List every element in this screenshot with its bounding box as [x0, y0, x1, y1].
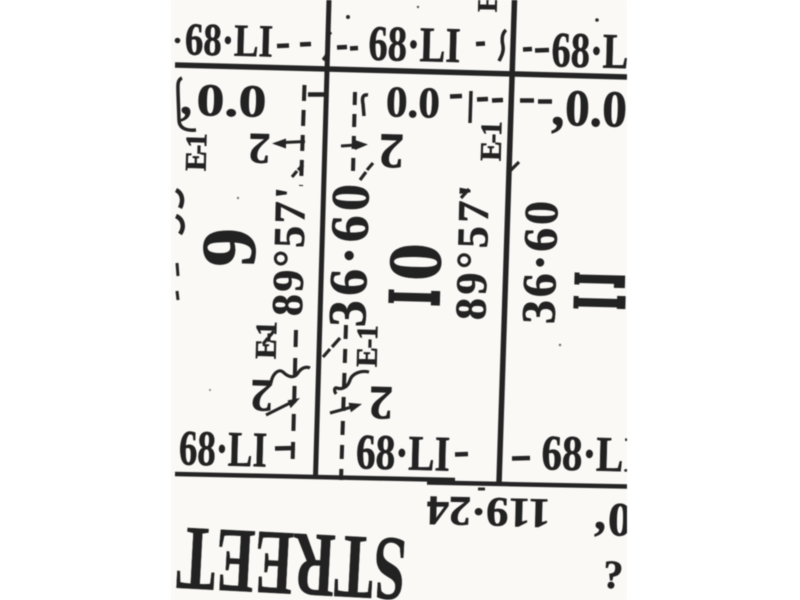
svg-text:0.0: 0.0 [564, 80, 627, 139]
easement dashed line right of lot line 9/10, top segment [353, 92, 355, 172]
svg-text:89°57': 89°57' [446, 184, 499, 320]
svg-text:0: 0 [373, 242, 458, 282]
squiggle leader lot 9 bottom [271, 367, 310, 383]
cut glyph fragment arcs at left scan edge [176, 190, 182, 208]
easement tick left of lot line 10/11 [470, 91, 471, 123]
arrow toward 2 label lot 9 top [284, 142, 305, 143]
svg-text:36·60: 36·60 [317, 183, 381, 328]
leader dash at lot line 10/11 near 36.60 column top [510, 162, 519, 171]
easement dashed line left of lot line 9/10, bottom segment [293, 330, 297, 466]
diagonal leader dashes below 36.60 column 9/10 [323, 349, 330, 357]
diagonal leader dashes above bearing column 9/10 [292, 171, 297, 177]
street boundary line (bottom horizontal, segment B) [427, 483, 627, 487]
lot line between 10 and 11 (vertical, tilted) [499, 0, 515, 483]
svg-text:119·24: 119·24 [426, 486, 551, 535]
easement dashed line left of lot line 9/10, top segment [301, 85, 305, 186]
dimension tick crossing lot line 10/11 at top [499, 30, 506, 61]
diagonal leader dashes above 36.60 column 9/10 [360, 172, 366, 180]
diagonal leader dashes below bearing column 9/10 [263, 338, 268, 344]
svg-text:0.0: 0.0 [385, 77, 440, 127]
svg-text:E-1: E-1 [350, 325, 384, 368]
svg-text:2: 2 [368, 376, 393, 430]
svg-text:,: , [551, 77, 565, 137]
arrow at lot 10 bottom pointing right [330, 408, 350, 414]
svg-text:2: 2 [378, 123, 404, 180]
lot line between 9 and 10 (vertical, tilted) [316, 0, 330, 477]
svg-text:STREET: STREET [174, 508, 408, 600]
easement dashed line right of lot line 9/10, bottom segment [341, 325, 346, 480]
svg-text:68·LI: 68·LI [541, 424, 640, 483]
top dimension row leader dashes [277, 44, 549, 51]
svg-text:68·LI: 68·LI [178, 419, 267, 477]
squiggle leader lot 10 bottom [335, 371, 369, 394]
top dimension 17.89 lot 9 (rotated scan text) [175, 13, 645, 482]
leader dot before lot 9 top dimension [175, 38, 181, 44]
arrow toward 2 label lot 10 top [341, 145, 356, 146]
rear lot boundary line (top horizontal) [175, 65, 627, 77]
svg-text:68·LI: 68·LI [184, 13, 273, 66]
svg-text:E-1: E-1 [474, 121, 508, 162]
svg-text:?: ? [601, 551, 624, 597]
scan speckles [346, 15, 350, 19]
svg-text:E-1: E-1 [472, 0, 504, 12]
svg-text:68·LI: 68·LI [368, 15, 461, 73]
dimension tick crossing lot line 9/10 at top [323, 32, 331, 60]
svg-text:,: , [180, 72, 192, 125]
leader dash right of 0.0 lot 9 [308, 92, 326, 97]
svg-text:36·60: 36·60 [512, 200, 568, 324]
bottom dimension row leader dashes [275, 448, 530, 459]
leader dashes left of 0.0 lot 11 [520, 101, 552, 102]
svg-text:,: , [594, 487, 606, 540]
bracket tick left of 0.0 lot 9 [178, 78, 196, 130]
lot number 11: second 1 [573, 296, 625, 309]
svg-text:E-1: E-1 [180, 133, 214, 172]
svg-text:89°57': 89°57' [263, 186, 315, 316]
svg-text:0.0: 0.0 [196, 74, 267, 127]
lot number 11: first 1 [574, 272, 625, 288]
leader dash near top of bearing column 10/11 [461, 189, 469, 198]
leader dashes right of 0.0 lot 10 [450, 96, 503, 101]
bracket tick left of 0.0 lot 10 [363, 95, 368, 116]
svg-text:9: 9 [185, 227, 273, 268]
arrow at lot 9 bottom pointing up-right [266, 403, 290, 415]
lot number 10: digit 1 (rotated bar with serifs) [388, 289, 440, 305]
white scan margins [0, 0, 171, 600]
svg-text:2: 2 [248, 124, 271, 174]
street boundary line (bottom horizontal, segment A) [175, 474, 455, 480]
svg-text:68·LI: 68·LI [355, 423, 450, 481]
